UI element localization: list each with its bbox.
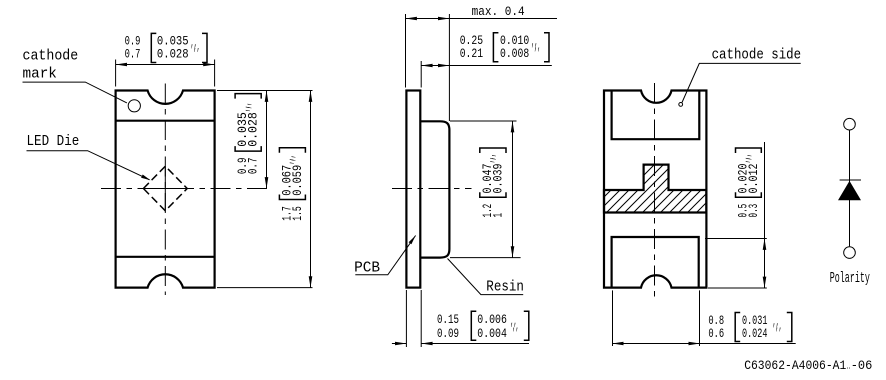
1.2/1 dimension line (512, 121, 514, 258)
PCB leader arrowhead (409, 236, 416, 245)
dimension text 0.15/0.09 [0.006/0.004''] (437, 311, 529, 341)
svg-text:1: 1 (492, 213, 506, 218)
LED Die leader arrowhead (141, 175, 150, 181)
end view package outline with notches (604, 91, 706, 288)
svg-text:0.8: 0.8 (708, 314, 724, 328)
top width dimension extension lines (115, 60, 117, 87)
svg-text:cathode: cathode (23, 47, 79, 64)
svg-text:0.7: 0.7 (125, 48, 141, 62)
svg-text:’’: ’’ (747, 154, 761, 161)
0.8/0.6 dimension extension lines (612, 290, 614, 346)
top width dimension line 0.9/0.7 (116, 64, 215, 66)
svg-text:0.028: 0.028 (157, 48, 189, 62)
top pad outline (612, 91, 700, 140)
bottom pad separation line (116, 256, 215, 258)
die crosshair vertical (164, 166, 166, 211)
polarity bottom terminal circle (844, 247, 856, 259)
svg-text:’’: ’’ (775, 327, 782, 341)
cathode side leader (682, 63, 801, 102)
bottom pad outline (612, 237, 699, 288)
top view package outline with notches (116, 91, 215, 288)
svg-text:’’: ’’ (247, 103, 261, 110)
svg-text:mark: mark (23, 66, 57, 83)
svg-text:’’: ’’ (291, 155, 305, 162)
svg-text:0.006: 0.006 (477, 313, 507, 327)
svg-text:0.012: 0.012 (747, 164, 761, 194)
svg-text:0.21: 0.21 (460, 47, 483, 61)
svg-text:-06: -06 (851, 358, 873, 373)
horizontal centerline top view (101, 188, 268, 190)
svg-text:0.09: 0.09 (437, 327, 459, 341)
LED Die leader (27, 151, 150, 180)
rotated dimension text 1.2/1 [0.047''/0.039''] (480, 148, 506, 218)
svg-text:0.25: 0.25 (460, 34, 483, 48)
svg-text:’’: ’’ (534, 47, 541, 61)
0.15/0.09 dimension extension lines (405, 290, 407, 347)
svg-text:0.024: 0.024 (742, 327, 767, 341)
hatched cross-section T shape (604, 165, 706, 213)
svg-text:0.3: 0.3 (747, 204, 761, 218)
cathode mark circle (128, 100, 140, 112)
max. 0.4 dimension extension lines (405, 14, 407, 88)
svg-text:cathode side: cathode side (712, 47, 802, 64)
0.15/0.09 dimension line with outside arrows (392, 343, 407, 345)
Resin leader (448, 259, 524, 295)
dimension text 0.8/0.6 [0.031/0.024''] (708, 313, 791, 342)
svg-text:’’: ’’ (512, 327, 519, 341)
svg-text:0.15: 0.15 (437, 313, 459, 327)
rotated dimension text 0.5/0.3 [0.020/0.012''] (736, 148, 762, 218)
svg-text:0.028: 0.028 (247, 112, 261, 147)
die crosshair horizontal (143, 188, 187, 190)
svg-text:C63062-A4006-A1: C63062-A4006-A1 (744, 358, 846, 373)
vertical centerline top view (164, 84, 166, 296)
dimension text 0.9/0.7 [0.035/0.028''] (125, 33, 207, 62)
0.5/0.3 dimension line (764, 142, 766, 288)
vertical dimension line 1.7/1.5 far right (310, 91, 312, 288)
svg-text:Polarity: Polarity (830, 270, 870, 287)
svg-text:0.7: 0.7 (247, 158, 261, 175)
rotated dimension text 1.7/1.5 [0.067''/0.059''] (279, 148, 305, 221)
diode cathode bar (840, 179, 861, 181)
0.25/0.21 dimension extension line (420, 61, 422, 88)
svg-text:0.039: 0.039 (492, 164, 506, 194)
svg-text:0.031: 0.031 (742, 314, 767, 328)
svg-text:’’: ’’ (492, 154, 506, 161)
svg-text:max. 0.4: max. 0.4 (472, 5, 525, 19)
max. 0.4 dimension line (406, 18, 558, 20)
top pad separation line (116, 120, 215, 122)
svg-text:0.6: 0.6 (708, 327, 724, 341)
svg-text:PCB: PCB (354, 259, 380, 276)
vertical dimension line 0.9/0.7 right (266, 91, 268, 189)
right extension lines of top view (217, 90, 313, 92)
0.8/0.6 dimension line (612, 343, 796, 345)
end view vertical centerline (654, 83, 656, 297)
cathode side leader end circle (679, 103, 683, 107)
svg-text:LED Die: LED Die (27, 133, 80, 150)
cathode mark leader (23, 82, 127, 103)
svg-text:0.059: 0.059 (291, 165, 305, 196)
svg-text:1.5: 1.5 (291, 206, 305, 221)
PCB leader (355, 236, 415, 275)
PCB slab (406, 91, 420, 288)
svg-text:0.008: 0.008 (500, 47, 529, 61)
svg-text:Resin: Resin (486, 279, 524, 296)
1.2/1 dimension extension lines (450, 120, 517, 122)
svg-text:0.004: 0.004 (477, 327, 507, 341)
rotated dimension text 0.9/0.7 [0.035/0.028''] (235, 94, 261, 175)
resin body profile (420, 121, 449, 257)
0.5/0.3 dimension extension lines (705, 238, 767, 240)
LED die diamond (dashed) (143, 166, 187, 211)
side view centerline (392, 188, 472, 190)
polarity top terminal circle (844, 118, 856, 130)
svg-text:0.010: 0.010 (500, 34, 529, 48)
dimension text 0.25/0.21 [0.010/0.008''] (460, 33, 549, 62)
polarity wire (849, 130, 851, 246)
diode triangle (838, 181, 861, 200)
0.25/0.21 dimension line (421, 65, 552, 67)
svg-text:’’: ’’ (193, 47, 200, 61)
